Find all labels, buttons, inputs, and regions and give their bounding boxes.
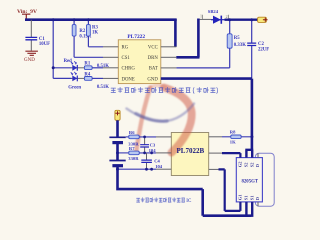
pin names U1 left: RG CS1 CHRG DONE bbox=[122, 46, 136, 83]
battery BT2 cell 2 bbox=[109, 161, 125, 166]
wire: R4 to DONE pin bbox=[92, 77, 103, 79]
battery BT1 cell 1 bbox=[109, 137, 125, 142]
sheet symbol U1 PL7222 charger IC box bbox=[118, 40, 161, 84]
svg-text:2: 2 bbox=[226, 14, 228, 19]
resistor R3 bbox=[87, 20, 91, 36]
capacitor C2 bbox=[247, 20, 256, 79]
svg-text:1: 1 bbox=[200, 14, 202, 19]
svg-text:SB24: SB24 bbox=[208, 9, 219, 14]
pin stub U2 pin1 bbox=[156, 136, 171, 138]
svg-text:Red: Red bbox=[64, 59, 73, 64]
wire: G2 drive bbox=[209, 152, 222, 154]
wire: S2 jog from GND riser bbox=[245, 150, 253, 158]
wire: B- down and around to S1 bbox=[116, 166, 251, 216]
pin stub BAT bbox=[161, 67, 177, 69]
LED D3 Green bbox=[71, 72, 85, 81]
watermark logo: blue orbit swoosh bbox=[127, 104, 195, 122]
svg-text:8205GT: 8205GT bbox=[242, 179, 259, 184]
wire: main +9V rail bbox=[25, 18, 177, 21]
wire: R2 to CS1 bbox=[74, 36, 103, 57]
caption: protection circuit (fake CJK) 两节锂电池串联保护电路IC bbox=[137, 198, 185, 203]
svg-text:R8: R8 bbox=[230, 129, 236, 134]
resistor R1 bbox=[84, 66, 92, 70]
output plug connector + (charger positive) bbox=[258, 17, 268, 22]
svg-text:1K: 1K bbox=[92, 30, 98, 35]
wire: diode anode lead bbox=[200, 18, 212, 20]
wire: between cells bbox=[116, 143, 119, 161]
svg-text:104: 104 bbox=[155, 164, 163, 169]
LED D2 Red bbox=[71, 61, 85, 70]
svg-text:G1: G1 bbox=[238, 194, 243, 201]
pin stub DRN bbox=[161, 56, 177, 58]
wire: R3 to RG bbox=[88, 36, 103, 47]
svg-text:R6: R6 bbox=[129, 130, 135, 135]
svg-text:CHRG: CHRG bbox=[122, 67, 136, 72]
resistor R7 bbox=[118, 151, 157, 155]
junction dot R5/rail bbox=[228, 18, 231, 21]
svg-text:Vin:_9V: Vin:_9V bbox=[17, 9, 37, 15]
pin stub D top bbox=[257, 153, 259, 157]
pin number 1 tick bbox=[201, 15, 203, 19]
svg-text:DONE: DONE bbox=[122, 77, 135, 82]
svg-text:C3: C3 bbox=[150, 142, 156, 147]
svg-text:R2: R2 bbox=[79, 29, 85, 34]
svg-text:CS1: CS1 bbox=[122, 56, 131, 61]
caption: charger circuit (fake CJK) 两节锂电池串联充电电路（降压型） bbox=[111, 87, 218, 93]
svg-text:S2: S2 bbox=[244, 162, 249, 168]
pin stub VCC bbox=[161, 46, 177, 48]
resistor R6 bbox=[126, 135, 156, 139]
pin stub U2 pin3 bbox=[156, 168, 171, 170]
svg-text:VCC: VCC bbox=[148, 46, 158, 51]
svg-text:C2: C2 bbox=[258, 42, 264, 47]
wire: GND net from U1 to right riser bbox=[161, 79, 252, 150]
svg-text:1K: 1K bbox=[230, 139, 236, 144]
junction dot C3 top bbox=[143, 136, 146, 139]
junction dot C2/wire bbox=[250, 18, 253, 21]
svg-text:PL7222: PL7222 bbox=[127, 34, 145, 40]
wire: rail corner down to VCC bbox=[174, 19, 177, 47]
wire: S1 stubs to B- bbox=[246, 202, 252, 217]
sheet symbol U2 PL7022B protection IC box bbox=[171, 133, 208, 176]
junction dots rail taps bbox=[52, 18, 55, 21]
pin names U3 top: G2 S2 S2 D bbox=[238, 161, 261, 168]
svg-text:IC: IC bbox=[186, 199, 192, 204]
pin names U1 right: VCC DRN BAT GND bbox=[147, 46, 158, 83]
pin number 2 tick bbox=[227, 15, 229, 19]
svg-text:R1: R1 bbox=[84, 62, 90, 67]
svg-text:BAT: BAT bbox=[149, 67, 158, 72]
svg-text:R4: R4 bbox=[84, 72, 90, 77]
svg-text:DRN: DRN bbox=[148, 56, 159, 61]
pin names U3 bottom: G1 S1 S1 D bbox=[238, 194, 261, 201]
svg-text:22UF: 22UF bbox=[258, 48, 269, 53]
dual MOSFET U3 8205GT box bbox=[236, 158, 262, 202]
resistor R5 bbox=[176, 20, 232, 68]
resistor R4 bbox=[84, 77, 92, 81]
watermark logo: red D swirl bbox=[136, 85, 191, 152]
svg-text:GND: GND bbox=[147, 77, 158, 82]
pin stub D bottom bbox=[257, 202, 259, 206]
capacitor C4 bbox=[141, 153, 152, 169]
svg-text:330R: 330R bbox=[128, 156, 139, 161]
wire: R1 to CHRG pin bbox=[92, 67, 103, 69]
wire: B- sense row3 bbox=[118, 168, 157, 170]
pin stub U2 OC (to R8) bbox=[209, 136, 222, 138]
svg-text:RG: RG bbox=[122, 46, 129, 51]
diode D1 SB24 bbox=[211, 16, 226, 24]
svg-text:S1: S1 bbox=[249, 195, 254, 201]
battery pack plug connector + bbox=[115, 110, 120, 120]
svg-text:PL7022B: PL7022B bbox=[177, 147, 205, 155]
svg-text:0.33K: 0.33K bbox=[234, 43, 246, 48]
junction dot R8/riser bbox=[250, 135, 253, 138]
wire: diode cathode to output plug bbox=[225, 19, 258, 21]
svg-text:S2: S2 bbox=[249, 162, 254, 168]
svg-text:GND: GND bbox=[24, 58, 35, 63]
ground symbol GND (C1) bbox=[25, 51, 38, 55]
capacitor C1 leads bbox=[30, 20, 32, 51]
wire: LED feed riser bbox=[53, 20, 71, 79]
svg-text:S1: S1 bbox=[244, 195, 249, 201]
junction dots row2 bbox=[116, 151, 119, 154]
capacitor C3 bbox=[140, 137, 149, 153]
svg-text:0.51K: 0.51K bbox=[97, 85, 109, 90]
wire: pack+ down to battery bbox=[116, 120, 119, 137]
junction dot LED feed bbox=[52, 66, 55, 69]
junction dots row3 bbox=[116, 168, 119, 171]
svg-text:R7: R7 bbox=[129, 146, 135, 151]
wire: DRN riser bbox=[176, 19, 199, 58]
resistor R8 bbox=[222, 135, 252, 139]
svg-text:Green: Green bbox=[68, 86, 81, 91]
power flag Vin_9V bbox=[22, 14, 30, 20]
wire: OD to G1 bbox=[209, 168, 219, 170]
svg-text:10UF: 10UF bbox=[39, 42, 50, 47]
resistor R2 bbox=[72, 20, 76, 36]
wire: red LED row bbox=[53, 67, 71, 69]
outer loop rectangle (drain net) around U3 bbox=[255, 153, 274, 206]
svg-text:G2: G2 bbox=[238, 161, 243, 168]
capacitor C1 bbox=[25, 37, 37, 39]
pin stub U2 pin2 bbox=[156, 152, 171, 154]
svg-text:C4: C4 bbox=[154, 158, 160, 163]
svg-text:R5: R5 bbox=[234, 36, 240, 41]
